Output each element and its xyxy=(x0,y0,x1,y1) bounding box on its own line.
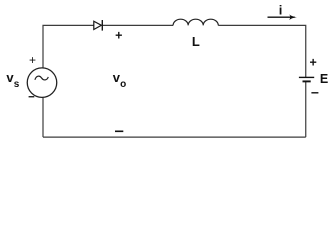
wire top-mid: diode cathode to inductor start xyxy=(102,24,173,26)
battery minus label xyxy=(311,92,318,93)
svg-text:o: o xyxy=(120,79,126,90)
svg-text:+: + xyxy=(310,56,317,70)
output minus label (bottom middle) xyxy=(115,131,123,133)
svg-text:s: s xyxy=(14,79,20,90)
wire bottom: bottom rail xyxy=(43,136,306,138)
diode cathode bar xyxy=(101,20,103,31)
inductor L coil xyxy=(173,19,218,25)
wire top-right: inductor end to right corner down to battery top plate xyxy=(218,25,305,77)
source VS sine wave xyxy=(35,76,48,80)
svg-text:+: + xyxy=(115,29,122,43)
source minus label xyxy=(29,96,35,97)
svg-text:+: + xyxy=(29,53,36,67)
svg-text:E: E xyxy=(320,72,328,86)
svg-text:i: i xyxy=(279,3,283,18)
wire left-bottom: source bottom to bottom-left corner xyxy=(42,97,44,137)
diode D triangle xyxy=(94,21,102,29)
wire top-left: from left corner to diode anode xyxy=(43,25,94,68)
current arrow head xyxy=(289,14,297,20)
svg-text:L: L xyxy=(192,34,200,49)
source VS circle xyxy=(27,68,57,98)
battery E top plate (long) xyxy=(299,76,314,78)
current arrow shaft xyxy=(268,16,295,18)
battery E bottom plate (short) xyxy=(303,80,311,82)
wire right-bottom: battery bottom plate down to bottom-right corner xyxy=(305,82,307,137)
